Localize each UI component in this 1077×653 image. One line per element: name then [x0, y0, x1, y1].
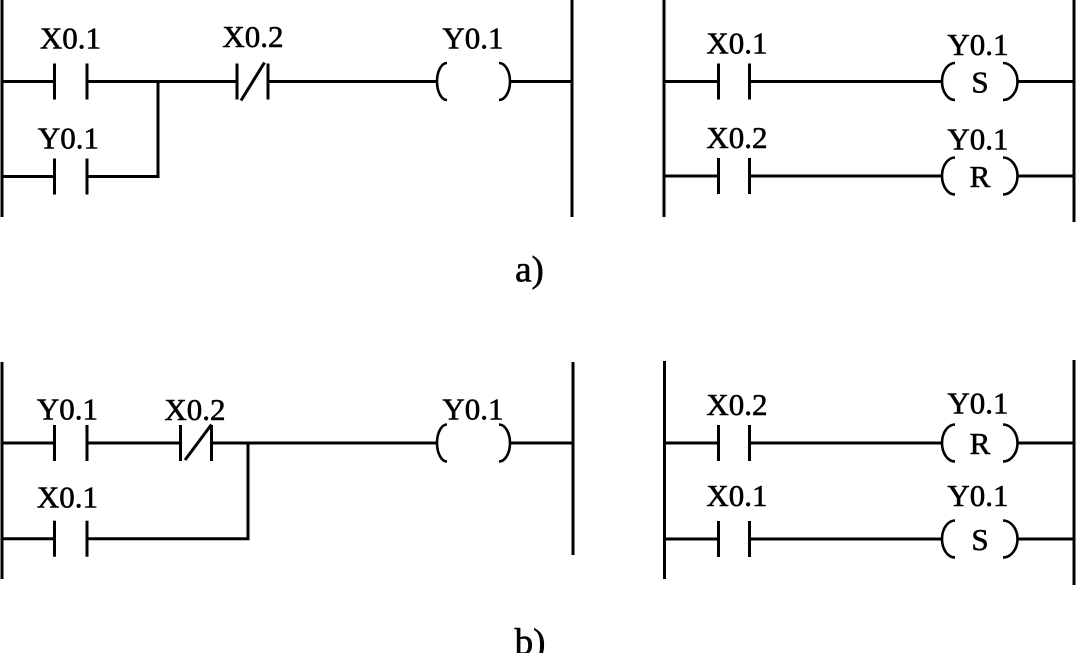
svg-text:X0.2: X0.2: [706, 120, 767, 155]
svg-text:S: S: [971, 522, 988, 557]
svg-text:S: S: [971, 65, 988, 100]
svg-text:R: R: [970, 426, 991, 461]
svg-text:X0.1: X0.1: [706, 26, 767, 61]
svg-text:Y0.1: Y0.1: [442, 392, 503, 427]
svg-text:X0.2: X0.2: [222, 19, 283, 54]
svg-text:Y0.1: Y0.1: [38, 121, 99, 156]
svg-text:X0.1: X0.1: [40, 21, 101, 56]
svg-text:X0.2: X0.2: [706, 387, 767, 422]
svg-text:b): b): [515, 622, 546, 653]
svg-text:a): a): [515, 250, 544, 291]
svg-text:Y0.1: Y0.1: [37, 392, 98, 427]
svg-text:R: R: [970, 159, 991, 194]
svg-text:X0.1: X0.1: [706, 478, 767, 513]
svg-text:X0.1: X0.1: [37, 480, 98, 515]
svg-text:Y0.1: Y0.1: [442, 21, 503, 56]
svg-text:Y0.1: Y0.1: [947, 122, 1008, 157]
svg-text:X0.2: X0.2: [164, 392, 225, 427]
svg-text:Y0.1: Y0.1: [947, 386, 1008, 421]
svg-text:Y0.1: Y0.1: [947, 478, 1008, 513]
svg-text:Y0.1: Y0.1: [947, 27, 1008, 62]
